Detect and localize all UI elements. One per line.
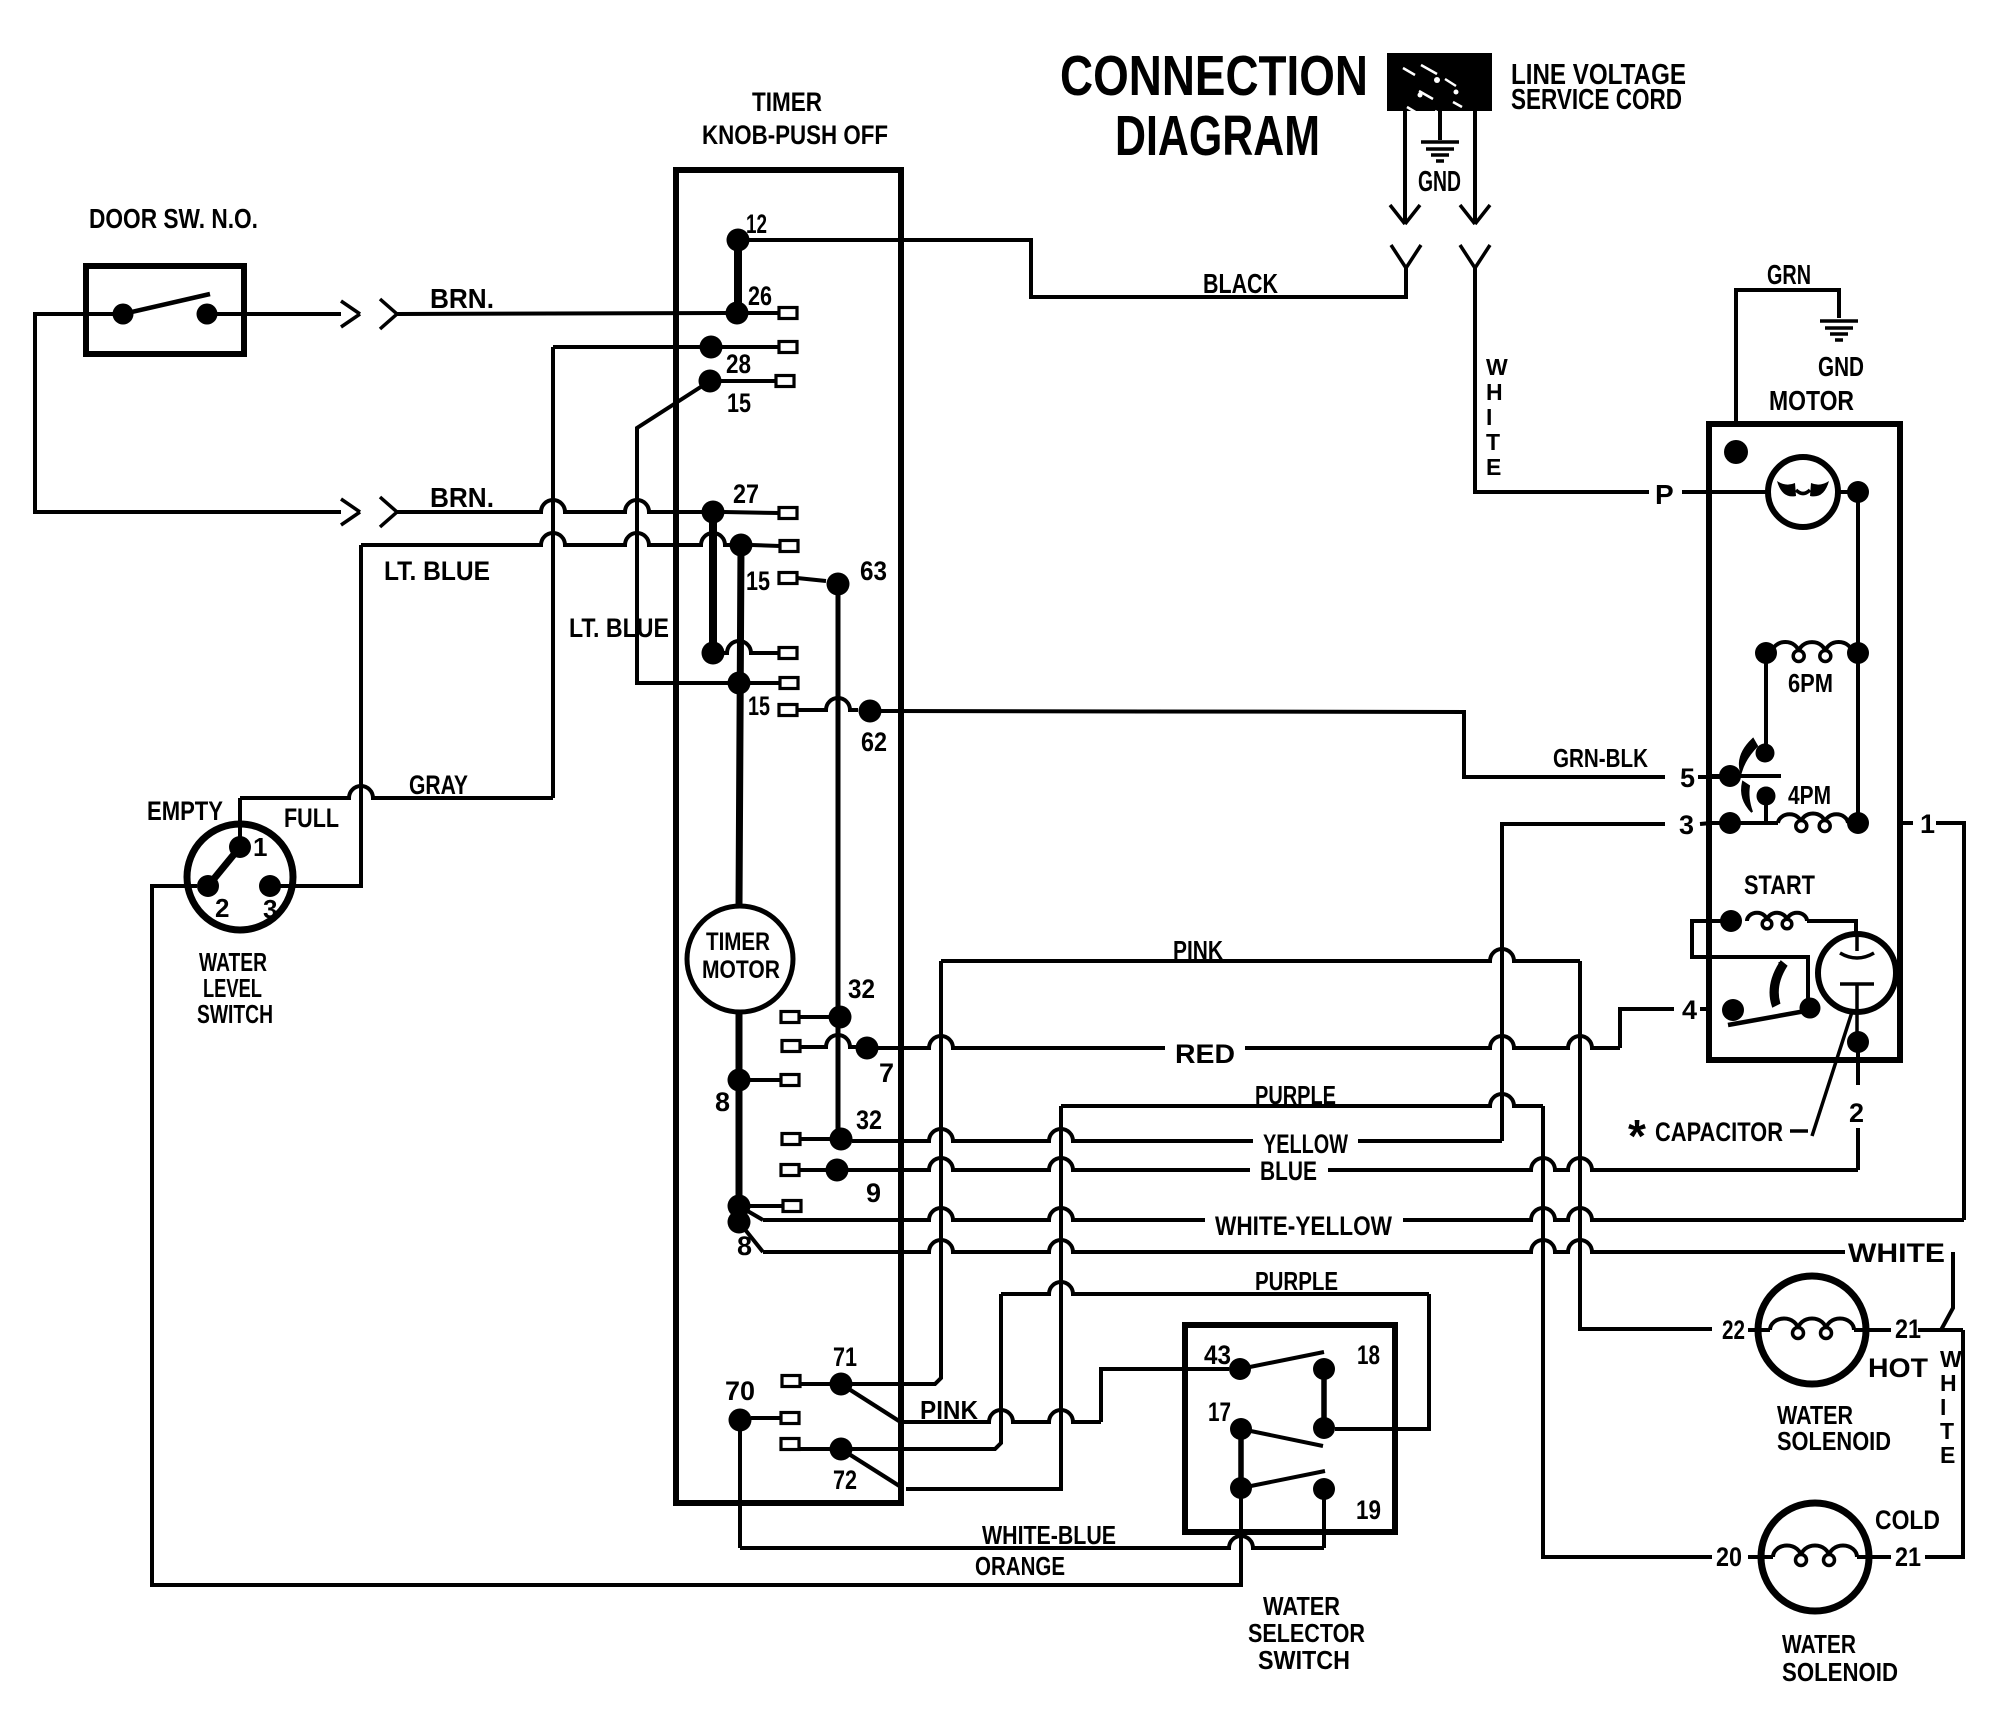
- svg-text:WATER: WATER: [1782, 1629, 1856, 1659]
- timer diamond dot 683: [728, 672, 751, 695]
- svg-text:70: 70: [725, 1376, 755, 1406]
- selector dot 17b: [1230, 1477, 1252, 1499]
- selector pin 19 dot: [1313, 1478, 1335, 1500]
- wire PINK (71 to selector 43): [904, 1410, 1101, 1422]
- pin 71 spade: [782, 1376, 800, 1387]
- cord wire left (black lead): [1403, 111, 1407, 222]
- start winding bracket: [1692, 921, 1808, 1000]
- ground symbol (motor GND): [1820, 321, 1858, 340]
- svg-text:22: 22: [1722, 1315, 1745, 1345]
- svg-text:FULL: FULL: [284, 803, 339, 833]
- svg-text:I: I: [1940, 1394, 1946, 1420]
- capacitor bottom dot: [1847, 1031, 1869, 1053]
- wire PURPLE (72 blade riser): [906, 1106, 1061, 1489]
- svg-text:YELLOW: YELLOW: [1263, 1129, 1348, 1159]
- svg-text:PURPLE: PURPLE: [1255, 1266, 1338, 1296]
- svg-text:17: 17: [1208, 1397, 1231, 1427]
- blade 43-18: [1240, 1352, 1324, 1369]
- svg-text:ORANGE: ORANGE: [975, 1551, 1065, 1581]
- wire white bus (hot to cold): [1925, 1330, 1963, 1557]
- wire PURPLE (to cold riser): [1061, 1094, 1543, 1106]
- pin 8a spade: [750, 1078, 781, 1082]
- svg-text:7: 7: [879, 1058, 894, 1088]
- wire 15a diagonal: [637, 381, 728, 683]
- svg-text:20: 20: [1716, 1542, 1742, 1572]
- speed switch upper contact (6PM): [1756, 744, 1775, 763]
- svg-text:PURPLE: PURPLE: [1255, 1080, 1336, 1110]
- pin 3 dot + wire: [1719, 812, 1741, 834]
- svg-text:21: 21: [1895, 1314, 1921, 1344]
- water selector switch box: [1185, 1325, 1395, 1532]
- wire pin 1 (motor to riser): [1900, 823, 1964, 1220]
- timer dot (lt blue): [730, 534, 753, 557]
- wire GRN (motor to ground): [1736, 290, 1839, 424]
- WLS pin 3 dot: [259, 875, 281, 897]
- svg-text:72: 72: [833, 1465, 857, 1495]
- timer pin 26 dot: [726, 302, 749, 325]
- svg-text:T: T: [1486, 429, 1500, 455]
- svg-text:START: START: [1744, 870, 1815, 900]
- motor ground dot: [1724, 440, 1748, 464]
- timer pin 7 dot: [856, 1037, 879, 1060]
- wire WHITE-YELLOW: [739, 1206, 763, 1220]
- timer pin 32a dot: [829, 1006, 852, 1029]
- blade 17b-19: [1241, 1471, 1325, 1488]
- svg-text:SERVICE CORD: SERVICE CORD: [1511, 84, 1682, 116]
- svg-text:LT. BLUE: LT. BLUE: [384, 556, 490, 586]
- svg-text:28: 28: [726, 349, 751, 379]
- wire YELLOW riser to motor 3: [1502, 823, 1711, 1141]
- pin 5 dot + bar: [1719, 765, 1741, 787]
- wire PINK (to motor 4 area): [941, 949, 1580, 961]
- wire GRAY (WLS 1 to timer 28): [238, 798, 242, 847]
- svg-text:SWITCH: SWITCH: [1258, 1645, 1350, 1675]
- timer pin 63 dot: [827, 573, 850, 596]
- wire door switch loop (left): [35, 314, 341, 512]
- chevron BRN 2: [380, 497, 397, 527]
- svg-text:BRN.: BRN.: [430, 482, 494, 513]
- svg-text:32: 32: [848, 974, 875, 1004]
- svg-text:I: I: [1486, 404, 1492, 430]
- wire GRN-BLK (timer 62 to motor 5): [881, 711, 1721, 777]
- selector bar 17: [1238, 1429, 1244, 1488]
- svg-text:32: 32: [856, 1105, 882, 1135]
- svg-text:E: E: [1940, 1442, 1955, 1468]
- svg-text:SWITCH: SWITCH: [197, 999, 273, 1029]
- wire WHITE corner to hot 21: [1941, 1252, 1953, 1330]
- wire 6PM to speed contact: [1764, 653, 1768, 748]
- speed switch wiper arrows: [1740, 739, 1757, 772]
- svg-text:PINK: PINK: [920, 1395, 978, 1425]
- wire BRN (to timer 26): [397, 313, 726, 314]
- svg-text:T: T: [1940, 1418, 1954, 1444]
- svg-text:WHITE: WHITE: [1848, 1238, 1945, 1268]
- blade 71: [841, 1384, 899, 1421]
- wire BLACK (timer 12 to line): [738, 240, 1406, 297]
- timer bus 63-32-32: [836, 584, 841, 1139]
- svg-text:H: H: [1486, 379, 1503, 405]
- svg-text:GRN-BLK: GRN-BLK: [1553, 743, 1648, 773]
- line voltage service cord (black block): [1387, 53, 1492, 111]
- selector bar 18: [1321, 1369, 1327, 1428]
- timer pin 62 dot: [859, 700, 882, 723]
- svg-text:WHITE-BLUE: WHITE-BLUE: [982, 1520, 1116, 1550]
- timer bar 12-26: [734, 240, 742, 313]
- svg-text:LT. BLUE: LT. BLUE: [569, 613, 669, 643]
- svg-text:GND: GND: [1818, 351, 1864, 382]
- wire BLUE: [848, 1158, 1858, 1170]
- wire RED: [878, 1036, 1620, 1048]
- pin 9 spade: [781, 1165, 799, 1176]
- svg-text:BLUE: BLUE: [1260, 1156, 1317, 1186]
- svg-text:CONNECTION: CONNECTION: [1060, 44, 1368, 108]
- svg-text:BRN.: BRN.: [430, 283, 494, 314]
- svg-text:BLACK: BLACK: [1203, 268, 1278, 299]
- svg-text:*: *: [1628, 1110, 1646, 1162]
- svg-text:TIMER: TIMER: [752, 87, 822, 117]
- WLS pin 2 dot: [197, 875, 219, 897]
- wire PURPLE riser to cold 20: [1543, 1106, 1761, 1557]
- selector pin 17 dot: [1230, 1418, 1252, 1440]
- wire WHITE-BLUE (70 to selector 19): [738, 1420, 742, 1548]
- connector V white: [1460, 245, 1490, 268]
- svg-text:GRN: GRN: [1767, 259, 1811, 290]
- svg-text:15: 15: [746, 566, 770, 596]
- motor box: [1709, 424, 1900, 1060]
- svg-text:P: P: [1655, 479, 1674, 510]
- svg-text:PINK: PINK: [1173, 935, 1223, 965]
- wire BRN (to timer 27): [397, 500, 702, 512]
- wire YELLOW: [852, 1129, 1502, 1141]
- timer center bus: [739, 545, 741, 1222]
- svg-text:SELECTOR: SELECTOR: [1248, 1618, 1365, 1648]
- start switch moving contact dot: [1800, 998, 1821, 1019]
- timer dot 653: [702, 642, 725, 665]
- svg-text:43: 43: [1204, 1340, 1231, 1370]
- timer pin 71 dot: [830, 1373, 853, 1396]
- timer box: [676, 170, 901, 1503]
- pin 653 spade: [713, 641, 779, 653]
- svg-text:6PM: 6PM: [1788, 668, 1833, 698]
- svg-text:1: 1: [253, 832, 267, 862]
- pin (lt blue) spade: [752, 545, 780, 546]
- svg-text:W: W: [1940, 1346, 1962, 1372]
- svg-text:HOT: HOT: [1868, 1353, 1929, 1383]
- pin 7 spade: [782, 1041, 800, 1052]
- pin 8b spade: [750, 1204, 783, 1208]
- cold water solenoid: [1761, 1503, 1869, 1611]
- WLS blade (empty): [208, 847, 240, 886]
- pin 26 spade: [748, 311, 779, 315]
- pin 15c spade + wire to 62: [779, 705, 797, 716]
- svg-text:2: 2: [1849, 1098, 1864, 1128]
- timer bar 27-down: [709, 512, 717, 653]
- svg-text:9: 9: [866, 1178, 881, 1208]
- svg-text:62: 62: [861, 727, 887, 757]
- wire FULL (WLS 3 to LT BLUE): [270, 545, 361, 886]
- svg-text:MOTOR: MOTOR: [1769, 385, 1854, 416]
- svg-text:15: 15: [727, 388, 751, 418]
- wire PINK riser to hot 22: [1580, 961, 1758, 1330]
- selector pin 43 dot: [1229, 1358, 1251, 1380]
- wire cold 21 link: [1869, 1555, 1891, 1559]
- door switch contacts: [113, 304, 134, 325]
- blade 72: [841, 1449, 901, 1487]
- start winding: [1720, 910, 1742, 932]
- svg-text:MOTOR: MOTOR: [702, 956, 780, 984]
- WLS pin 1 dot: [229, 836, 251, 858]
- timer pin 8b dots: [728, 1195, 751, 1218]
- svg-text:26: 26: [748, 281, 772, 311]
- svg-text:19: 19: [1356, 1495, 1381, 1525]
- timer pin 12 dot: [727, 229, 750, 252]
- svg-text:4: 4: [1682, 995, 1697, 1025]
- svg-text:GND: GND: [1418, 166, 1461, 198]
- pin 683 spade: [750, 681, 780, 685]
- svg-text:DOOR SW. N.O.: DOOR SW. N.O.: [89, 203, 258, 234]
- pin 70 spade: [751, 1416, 781, 1420]
- svg-text:1: 1: [1920, 809, 1935, 839]
- blade 17: [1241, 1429, 1323, 1446]
- svg-text:5: 5: [1680, 763, 1695, 793]
- svg-text:KNOB-PUSH OFF: KNOB-PUSH OFF: [702, 120, 888, 150]
- cord wire right (white lead): [1473, 111, 1477, 222]
- wire motor right bus (circle to 4PM): [1856, 492, 1860, 823]
- wire PINK (71 riser): [852, 961, 941, 1384]
- pin 15a spade: [721, 379, 776, 383]
- pin 28 spade: [722, 345, 779, 349]
- svg-text:RED: RED: [1175, 1039, 1235, 1069]
- wire 19 riser: [1322, 1489, 1326, 1548]
- svg-text:63: 63: [860, 556, 887, 586]
- pin 15b spade + wire to 63: [779, 573, 797, 584]
- wire LT. BLUE (full to timer): [361, 533, 730, 545]
- capacitor circle: [1818, 934, 1896, 1012]
- hot water solenoid: [1758, 1276, 1866, 1384]
- svg-text:4PM: 4PM: [1788, 780, 1831, 810]
- timer motor circle: [687, 906, 793, 1012]
- svg-text:E: E: [1486, 454, 1501, 480]
- pin 72 spade: [781, 1439, 799, 1450]
- svg-text:WHITE-YELLOW: WHITE-YELLOW: [1215, 1211, 1392, 1241]
- pin 32a spade: [781, 1012, 799, 1023]
- svg-text:W: W: [1486, 354, 1508, 380]
- wire door switch to BRN arrow: [207, 312, 341, 316]
- selector dot 18b: [1313, 1417, 1335, 1439]
- svg-text:71: 71: [833, 1342, 857, 1372]
- svg-text:2: 2: [215, 893, 229, 923]
- motor circle right dot: [1838, 490, 1850, 494]
- cord ground lead + ground symbol: [1438, 111, 1442, 140]
- svg-text:3: 3: [263, 894, 277, 924]
- svg-text:18: 18: [1357, 1340, 1380, 1370]
- wire PURPLE (72 to selector 18): [852, 1294, 1001, 1449]
- svg-text:CAPACITOR: CAPACITOR: [1655, 1117, 1783, 1147]
- wire WHITE (line to motor P): [1475, 268, 1769, 492]
- timer pin 8a dot: [728, 1069, 751, 1092]
- timer pin 9 dot: [826, 1159, 849, 1182]
- timer pin 70 dot: [729, 1409, 752, 1432]
- timer pin 15a dot: [699, 370, 722, 393]
- svg-text:SOLENOID: SOLENOID: [1777, 1426, 1891, 1456]
- svg-text:DIAGRAM: DIAGRAM: [1115, 104, 1320, 168]
- svg-text:WATER: WATER: [1263, 1591, 1340, 1621]
- svg-text:EMPTY: EMPTY: [147, 796, 223, 826]
- motor run circle: [1768, 457, 1838, 527]
- timer pin 72 dot: [830, 1438, 853, 1461]
- 6PM winding: [1755, 642, 1777, 664]
- selector pin 18 dot: [1313, 1358, 1335, 1380]
- wire hot 21 to white riser: [1866, 1328, 1963, 1332]
- pin 32b spade: [782, 1134, 800, 1145]
- svg-text:21: 21: [1895, 1542, 1921, 1572]
- speed switch lower contact (4PM): [1757, 787, 1776, 806]
- start switch actuator arrow: [1771, 962, 1786, 1006]
- timer pin 28 dot: [700, 336, 723, 359]
- svg-text:SOLENOID: SOLENOID: [1782, 1657, 1898, 1687]
- svg-text:8: 8: [715, 1087, 730, 1117]
- water level switch circle: [187, 824, 293, 930]
- pin 27 spade: [724, 512, 779, 513]
- pin 4 wire: [1620, 1009, 1711, 1048]
- door switch box: [86, 266, 244, 354]
- svg-text:H: H: [1940, 1370, 1957, 1396]
- svg-text:27: 27: [733, 479, 759, 509]
- wire WHITE (timer to right): [739, 1222, 763, 1252]
- wire GRAY riser to 28: [553, 345, 700, 349]
- svg-text:COLD: COLD: [1875, 1505, 1940, 1535]
- svg-text:TIMER: TIMER: [706, 928, 770, 956]
- start switch blade: [1728, 1010, 1811, 1025]
- connector V black: [1391, 245, 1421, 268]
- chevron BRN 1: [380, 299, 397, 329]
- pin 4 dot: [1722, 999, 1744, 1021]
- wire pin 2 riser (capacitor to BLUE): [1856, 1042, 1860, 1170]
- svg-text:12: 12: [746, 209, 767, 239]
- svg-text:GRAY: GRAY: [409, 770, 468, 800]
- svg-text:15: 15: [748, 691, 770, 721]
- timer pin 32b dot: [830, 1128, 853, 1151]
- wire ORANGE (WLS 2 to selector 17): [152, 886, 1241, 1585]
- 4PM winding: [1740, 821, 1778, 825]
- timer pin 27 dot: [702, 501, 725, 524]
- svg-text:3: 3: [1679, 810, 1694, 840]
